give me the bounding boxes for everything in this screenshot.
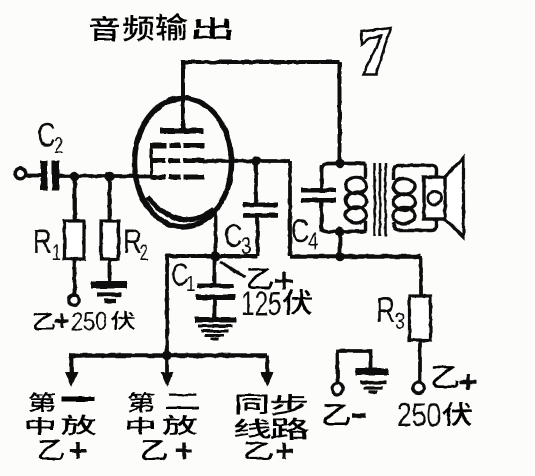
- wire: R2 to ground: [108, 259, 112, 281]
- wire: C3 bottom lead: [256, 218, 260, 257]
- wire: plate top run to transformer: [181, 62, 340, 162]
- node: screen junction: [251, 156, 261, 166]
- capacitor C3: [243, 203, 278, 208]
- arrow to second IF amp: [165, 356, 169, 374]
- label 乙+125伏: [248, 268, 273, 289]
- svg-text:1: 1: [186, 272, 195, 297]
- node: grid/R1 junction: [70, 172, 80, 182]
- tube plate: [160, 128, 203, 134]
- wire: C1 to ground: [213, 300, 217, 317]
- label 同步线路乙+: [237, 394, 268, 413]
- svg-text:250: 250: [71, 308, 107, 336]
- terminal circle B+250V: [69, 295, 79, 305]
- svg-text:C: C: [37, 117, 55, 154]
- input terminal: [15, 168, 26, 179]
- ground under C1: [195, 317, 237, 323]
- wire: plate lead up: [181, 62, 185, 128]
- node: primary bottom junction: [335, 227, 345, 237]
- node: plate/primary top junction: [335, 159, 345, 169]
- capacitor C2: [41, 161, 48, 191]
- wire: screen/B+ bottom bus: [290, 254, 421, 259]
- node: bus junction: [162, 351, 172, 361]
- wire: internal grid tie: [150, 143, 153, 179]
- label 第二中放乙+: [128, 392, 154, 413]
- svg-text:4: 4: [308, 227, 318, 255]
- tube cathode: [147, 197, 214, 220]
- capacitor C4: [301, 188, 336, 193]
- wire: R1 to terminal: [73, 259, 77, 295]
- label 乙+250伏 (left): [34, 313, 55, 330]
- svg-text:C: C: [224, 218, 242, 255]
- transformer primary winding loops: [346, 178, 367, 194]
- node: grid/R2 junction: [105, 172, 115, 182]
- wire: cathode lead down: [214, 209, 218, 256]
- label 乙+ (right): [432, 366, 459, 388]
- speaker horn: [445, 158, 464, 238]
- distribution bus: [69, 353, 267, 358]
- terminal circle B-: [332, 384, 343, 395]
- svg-text:250: 250: [397, 398, 441, 434]
- svg-text:R: R: [376, 291, 396, 330]
- wire: B- to ground: [338, 351, 371, 384]
- svg-text:R: R: [33, 223, 52, 261]
- node: cathode junction: [211, 251, 221, 261]
- terminal circle B+250V (right): [413, 382, 424, 393]
- wire: C4 leads: [320, 165, 324, 232]
- wire: C3 top lead: [254, 161, 258, 203]
- tube grid row 1 (suppressor): [153, 143, 205, 148]
- wire: C2 to control grid: [59, 174, 153, 178]
- arrow to sync circuit: [265, 356, 269, 374]
- capacitor C1: [213, 256, 217, 284]
- wire: cathode bus (125V node): [167, 254, 258, 258]
- transformer secondary: [394, 166, 437, 181]
- wire: junction down to R2: [108, 177, 112, 222]
- pointer line for 125V label: [220, 262, 245, 278]
- svg-text:2: 2: [139, 241, 148, 266]
- arrow to first IF amp: [70, 356, 74, 374]
- transformer core: [375, 163, 386, 236]
- numeral 7: [362, 28, 391, 75]
- svg-text:C: C: [291, 213, 309, 250]
- svg-text:3: 3: [395, 309, 405, 335]
- ground (B-): [356, 368, 389, 375]
- wire: left drop to distribution bus: [165, 254, 169, 356]
- resistor R1: [65, 221, 85, 259]
- wire: R3 to terminal: [418, 340, 422, 382]
- wire: primary bottom to bus: [338, 232, 342, 257]
- wire: junction down to R1: [73, 177, 77, 222]
- wire: input to C2: [26, 174, 41, 178]
- speaker voice coil: [424, 177, 445, 219]
- svg-text:1: 1: [52, 241, 61, 266]
- resistor R3: [410, 296, 431, 340]
- wire: bus corner down to R3: [419, 257, 423, 299]
- wire: screen node down right side: [288, 161, 292, 257]
- svg-text:125: 125: [241, 287, 282, 323]
- tube grid row 2 (screen): [153, 158, 205, 163]
- resistor R2: [101, 221, 119, 259]
- title 音频输出: [90, 16, 119, 41]
- wire: screen grid lead right: [204, 159, 290, 163]
- transformer T1 primary frame: [322, 164, 367, 232]
- op tube V1 envelope: [135, 98, 232, 227]
- label 乙-: [324, 404, 350, 425]
- tube grid row 3 (control): [153, 175, 205, 180]
- node: transformer bottom to bus: [335, 252, 345, 262]
- label 第一中放乙+: [29, 392, 55, 413]
- ground under R2: [91, 281, 127, 289]
- svg-text:2: 2: [54, 134, 63, 159]
